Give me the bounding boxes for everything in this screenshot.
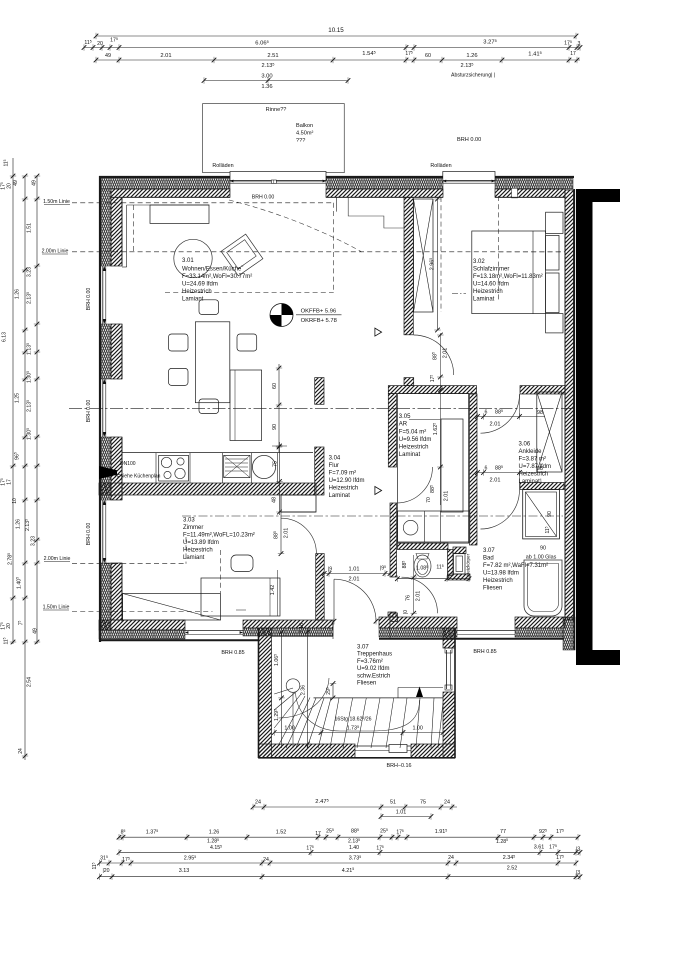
dashed line 2.00m top [72,251,565,253]
interior wall WC north (W7) [397,543,448,550]
dimension chain total 10.15 (top row 1) [96,35,576,37]
stairwell east window [446,650,448,689]
kitchen counter outline [122,452,313,454]
svg-text:AR: AR [399,422,408,428]
svg-text:24: 24 [448,855,454,861]
door Bad west (arc) [402,577,438,613]
bathtub [524,560,562,616]
wall exterior north outer edge [99,176,574,178]
svg-text:10: 10 [12,498,18,504]
window centerline mark bedroom [452,293,466,295]
svg-text:2.01: 2.01 [349,577,360,583]
svg-text:3.61: 3.61 [534,845,545,851]
svg-text:OKFFB+ 5.96: OKFFB+ 5.96 [301,309,337,315]
chair right 1 [237,334,257,351]
window west 1 [102,266,104,324]
svg-text:OKRFB+ 5.78: OKRFB+ 5.78 [301,318,337,324]
svg-text:|20: |20 [102,868,109,874]
wall exterior south-right insulation [379,628,457,637]
wardrobe Ankleide (X) [537,392,562,472]
svg-text:60: 60 [425,53,431,59]
wall exterior west insulation [101,189,111,266]
svg-text:F=33.14m²,WoFl=30.77m²: F=33.14m²,WoFl=30.77m² [182,274,252,280]
svg-text:Heizestrich: Heizestrich [183,548,213,554]
svg-text:3.23: 3.23 [27,267,33,277]
svg-text:Flur: Flur [329,463,339,469]
svg-text:BRH 0.85: BRH 0.85 [221,650,244,656]
svg-text:Heizestrich: Heizestrich [483,578,513,584]
wall exterior south-right outer edge [379,638,564,640]
svg-text:1.51: 1.51 [27,223,33,233]
interior wall radiator stub bottom [448,574,471,580]
stair dim vertical 2.36 [307,628,309,748]
svg-text:F=7.82 m²,WaFl=7.31m²: F=7.82 m²,WaFl=7.31m² [483,563,548,569]
radiator [454,554,466,574]
svg-text:U=9.02 lfdm: U=9.02 lfdm [357,666,390,672]
staircase tread top line [314,697,444,699]
svg-text:24: 24 [18,748,24,754]
svg-text:2.52: 2.52 [507,865,518,871]
svg-text:Heizestrich: Heizestrich [473,289,503,295]
svg-text:6.13: 6.13 [2,332,8,342]
door AR (arc) [397,467,433,503]
svg-text:24: 24 [444,800,450,806]
interior wall hall/bedroom (W1) [404,197,413,334]
chair left 1 [169,334,189,351]
svg-text:115​: 115​ [544,526,551,533]
balcony outline [203,104,345,173]
wall exterior east inner edge [564,197,566,617]
svg-text:1.50m Linie: 1.50m Linie [43,199,70,205]
nightstand top [546,212,563,233]
dashed line 2.00m bottom [72,563,186,565]
svg-text:BRH 0.00: BRH 0.00 [457,137,481,143]
AR shelf [441,419,463,512]
armchair rotated [221,234,263,276]
svg-text:3.02: 3.02 [473,259,485,265]
svg-text:BRH 0.85: BRH 0.85 [473,649,496,655]
chair top [199,300,219,315]
interior wall AR north (W3) [388,386,476,394]
svg-text:BRH 0.00: BRH 0.00 [252,195,275,201]
svg-text:1.40: 1.40 [349,845,359,851]
nightstand bottom [546,314,563,333]
svg-text:Rinne??: Rinne?? [266,107,287,113]
svg-text:2.01: 2.01 [490,422,501,428]
svg-text:U=13.89 lfdm: U=13.89 lfdm [183,540,219,546]
svg-text:1.42: 1.42 [270,585,276,596]
stove with 4 burners [159,455,189,481]
svg-text:115​: 115​ [3,637,10,644]
dimension chain 3.00 / 1.36 [204,80,348,82]
dim line below WC [397,578,469,580]
dashed connector living [133,205,135,252]
svg-text:F=3.76m²: F=3.76m² [357,659,383,665]
WC toilet [414,555,431,577]
svg-text:Fliesen: Fliesen [357,681,376,687]
stair dim vertical 1.06.5/1.29.5 [281,632,283,748]
svg-text:U=14.60 lfdm: U=14.60 lfdm [473,282,509,288]
interior wall radiator stub top [453,547,466,554]
dimension chain bottom row D [100,862,577,864]
svg-text:1.26: 1.26 [14,289,20,299]
pillow 1 [546,235,559,270]
svg-text:49: 49 [105,53,111,59]
svg-text:51: 51 [390,800,396,806]
dashed area boundary horizontal [165,291,334,293]
svg-text:1.00: 1.00 [412,726,423,732]
interior wall Bad west stub south [390,613,397,621]
staircase treads right [400,698,407,748]
svg-text:2.00m Linie: 2.00m Linie [44,556,71,562]
svg-text:2.01: 2.01 [490,478,501,484]
svg-text:U=12.90 lfdm: U=12.90 lfdm [329,478,365,484]
left dimension line inner [36,176,38,644]
svg-text:Wohnen/Essen/Küche˜: Wohnen/Essen/Küche˜ [182,266,244,272]
svg-text:98: 98 [537,466,543,472]
interior wall Ankleide west (W5) [470,394,478,545]
wall exterior west hatch [111,197,122,266]
svg-text:U=7.87 lfdm: U=7.87 lfdm [519,464,552,470]
svg-text:3: 3 [578,41,581,47]
living room inner lining [127,204,210,206]
staircase winder arc [279,678,330,718]
survey point symbol [270,304,293,327]
svg-text:Balkon: Balkon [296,123,313,129]
svg-text:115​: 115​ [91,862,98,869]
window west 3 [102,500,104,563]
svg-text:75: 75 [420,800,426,806]
svg-text:Zimmer: Zimmer [183,525,203,531]
dashed line bedroom boundary [440,197,442,312]
corridor door dimension 19/1.01/19.5/2.01 [324,573,390,575]
svg-text:2.00m Linie: 2.00m Linie [42,248,69,254]
svg-text:BRH−0.16: BRH−0.16 [386,763,411,769]
stairwell west wall [259,628,272,758]
round table [174,239,212,277]
bedroom dim 2.96.5 [437,197,439,330]
svg-text:16Stg 18.625​/26: 16Stg 18.625​/26 [334,716,371,723]
bed Zimmer with diagonal [123,594,221,621]
window west 2 [102,379,104,437]
svg-text:Fliesen: Fliesen [483,586,502,592]
interior wall Bad west (W9b) [390,503,397,577]
svg-text:F=3.87 m²: F=3.87 m² [519,457,547,463]
svg-text:20: 20 [6,623,12,629]
door bedroom (arc) [414,335,454,375]
left dimension line outer [12,158,14,644]
svg-text:98: 98 [537,410,543,416]
svg-text:70: 70 [426,497,432,503]
svg-text:90: 90 [547,511,553,517]
dishwasher [224,455,250,477]
svg-text:1.01: 1.01 [396,810,407,816]
svg-text:???: ??? [296,138,305,144]
kitchen niche outline [281,495,316,512]
svg-text:Lamiant: Lamiant [182,296,204,302]
window north bedroom (Rolladen box) [443,172,495,181]
svg-text:17: 17 [7,479,13,485]
wall exterior north insulation [101,179,230,190]
svg-text:Schlafzimmer: Schlafzimmer [473,267,509,273]
svg-text:Heizestrich: Heizestrich [329,486,359,492]
staircase treads middle [330,698,339,748]
svg-text:3.03: 3.03 [183,518,195,524]
svg-text:|0: |0 [403,610,409,614]
svg-text:BRH 0.00: BRH 0.00 [86,288,92,311]
interior wall Zimmer east (W12) [316,554,325,620]
door Zimmer (arc) [281,518,316,553]
svg-text:1.00: 1.00 [284,726,295,732]
wall exterior south-left outer edge [99,639,259,641]
svg-text:1.26: 1.26 [466,53,477,59]
svg-text:Laminat: Laminat [473,297,495,303]
svg-text:1.36: 1.36 [261,84,272,90]
svg-text:Heizkörper: Heizkörper [466,553,471,576]
svg-text:20: 20 [7,183,13,189]
stair dim 29.5 [332,684,334,698]
svg-text:3.01: 3.01 [182,258,194,264]
window north living (Rolladen box) [230,172,326,181]
dimension chain bottom row B [119,836,578,838]
round sink [252,455,275,478]
svg-text:2.54: 2.54 [27,677,33,687]
svg-text:2.01: 2.01 [284,528,290,539]
svg-text:90: 90 [540,546,546,552]
wall exterior west inner edge [121,197,123,266]
stair dim 1.00/1.73.5/1.00 [274,732,443,734]
interior wall stub below bedroom door (W2) [404,378,414,386]
wall exterior west outer edge [99,176,101,642]
svg-text:1.25: 1.25 [14,393,20,403]
chair bottom [199,399,219,414]
svg-text:115​: 115​ [3,159,10,166]
svg-text:1.01: 1.01 [349,567,360,573]
wall exterior south-right hatch [379,617,457,628]
dimension chain 1.01 [381,816,431,818]
svg-text:49: 49 [33,628,39,634]
staircase walk line [296,693,420,731]
svg-text:h=siehe Küchenplan: h=siehe Küchenplan [115,474,161,480]
interior wall bedroom south (W4) [520,386,565,394]
svg-text:3.07: 3.07 [483,548,495,554]
svg-text:1.26: 1.26 [16,519,22,529]
svg-text:Heizestrich: Heizestrich [399,445,429,451]
stairwell south wall [259,744,356,758]
island dimension 60/90 [278,364,280,452]
svg-text:175​: 175​ [430,375,437,383]
svg-text:90: 90 [272,424,278,430]
desk Zimmer [201,578,280,616]
svg-text:6: 6 [485,410,488,416]
svg-text:Treppenhaus: Treppenhaus [357,652,392,658]
dashed line 2.00m mid [182,515,563,517]
interior wall kitchen/Zimmer (W13) [99,483,316,495]
chair left 2 [169,368,189,385]
dim Ankleide door lower [478,472,546,474]
svg-text:Laminat: Laminat [399,452,421,458]
sideboard top wall [150,205,209,223]
svg-text:24: 24 [255,800,261,806]
svg-text:Rolläden: Rolläden [212,163,233,169]
staircase up arrow [416,687,423,698]
niche line [281,511,316,513]
svg-text:3.23: 3.23 [31,536,37,546]
washbasin counter [397,511,469,542]
entrance lining step [335,197,337,211]
section marker triangle 2 [375,487,382,495]
svg-text:17: 17 [315,831,321,837]
svg-text:Bad: Bad [483,556,494,562]
svg-text:2.01: 2.01 [416,591,422,602]
interior wall living/hall upper (W14a) [315,378,324,405]
svg-text:1.52: 1.52 [276,830,287,836]
svg-text:|3: |3 [576,870,580,876]
dining table [195,322,229,403]
staircase newel circle [286,679,300,693]
dashed horizontal bedroom 2m [498,251,565,253]
svg-text:BRH 0.00: BRH 0.00 [86,400,92,423]
svg-text:Ankleide: Ankleide [519,449,543,455]
svg-text:1.26: 1.26 [209,830,220,836]
dashed connector bedroom [497,196,499,300]
svg-text:3.04: 3.04 [329,456,341,462]
section line A-A [69,407,575,409]
svg-text:48: 48 [272,497,278,503]
wall exterior east outer edge [573,189,575,650]
svg-text:2.51: 2.51 [267,53,278,59]
wall exterior north hatch [111,189,230,197]
svg-text:Heizestrich: Heizestrich [182,289,212,295]
svg-text:F=5.04 m²: F=5.04 m² [399,429,427,435]
chair Zimmer [231,555,253,572]
north wall gap detail [512,188,518,198]
svg-text:F=7.09 m²: F=7.09 m² [329,471,357,477]
svg-text:|3: |3 [576,847,580,853]
dimension chain row 2 (11.5/20/17.5/6.06.5/3.27.5/17.5/3) [84,47,580,49]
svg-text:3.06: 3.06 [519,442,531,448]
section marker triangle 1 [375,328,382,336]
balcony door swing (dashed arc) [229,200,362,252]
wall exterior north inner edge [122,196,230,198]
svg-text:49: 49 [13,180,19,186]
interior wall AR west upper (W9a) [388,394,396,467]
dimension chain bottom row E [100,876,581,878]
svg-text:Lamiant: Lamiant [183,555,205,561]
svg-text:2.01: 2.01 [160,53,171,59]
svg-text:DN100: DN100 [120,461,136,467]
svg-text:60: 60 [272,383,278,389]
interior wall living/hall lower (W14b) [315,447,324,495]
window south Bad [457,630,515,632]
svg-text:2.01: 2.01 [442,348,448,359]
svg-text:4.50m²: 4.50m² [296,131,314,137]
dim Ankleide door upper [478,416,546,418]
svg-text:6: 6 [485,466,488,472]
wall exterior south-left hatch [99,620,185,630]
svg-text:17: 17 [570,51,576,57]
stairwell north inner edge [272,635,334,637]
left dimension line middle [24,176,26,760]
svg-text:F=13.18m²,WoFl=11.83m²: F=13.18m²,WoFl=11.83m² [473,274,543,280]
wardrobe hall (X) [414,199,434,312]
svg-text:Rolläden: Rolläden [430,163,451,169]
svg-text:3.13: 3.13 [179,868,190,874]
svg-text:schw.Estrich: schw.Estrich [357,673,390,679]
bed [472,231,546,314]
svg-text:2.18: 2.18 [299,623,305,633]
kitchen dimension 75/48 [279,442,281,515]
svg-text:2.36: 2.36 [300,685,306,695]
balcony door mullion [271,180,276,183]
svg-text:1.50m Linie: 1.50m Linie [43,605,70,611]
window south Zimmer [185,630,243,632]
staircase treads left fan [274,688,293,694]
staircase landing edge [397,688,399,698]
dimension chain stair (24/2.47.5/51/75/24) [253,806,457,808]
svg-text:Laminat¹: Laminat¹ [519,479,542,485]
svg-text:77: 77 [500,829,506,835]
interior wall Ankleide/Bad (W6) [520,483,564,490]
svg-text:75: 75 [273,461,279,467]
wall exterior east hatch [565,190,574,620]
svg-text:20: 20 [97,41,103,47]
dashed area boundary vertical [333,203,335,293]
wall exterior south-left insulation [99,630,185,639]
svg-text:|9: |9 [328,567,332,573]
dashed connector Zimmer desk [220,550,222,593]
existing building wall (black) [576,189,620,202]
dashed line 1.50m top [72,202,334,204]
svg-text:24: 24 [263,857,269,863]
shower [523,490,560,539]
bedroom door dims [439,333,441,505]
svg-text:10.15: 10.15 [328,27,344,34]
svg-text:U=13.98 lfdm: U=13.98 lfdm [483,571,519,577]
svg-text:U=9.56 lfdm: U=9.56 lfdm [399,437,432,443]
corner block south-east [563,617,575,650]
svg-text:U=24.69 lfdm: U=24.69 lfdm [182,281,218,287]
stairwell south window [355,745,411,747]
svg-text:F=11.49m²,WoFL=10.23m²: F=11.49m²,WoFL=10.23m² [183,533,255,539]
svg-text:BRH 0.00: BRH 0.00 [86,523,92,546]
svg-text:2.01: 2.01 [444,491,450,502]
svg-text:Absturzsicherung| |: Absturzsicherung| | [451,73,495,79]
dimension chain row 3 (49/2.01/2.51/1.54.5/17/60/1.26/1.41.5/17) [96,59,580,61]
stair door threshold [332,621,334,639]
svg-text:3.07: 3.07 [357,645,369,651]
kitchen island [230,370,262,441]
dimension chain bottom row C [119,851,580,853]
door stair entry (arc) [334,579,376,621]
svg-text:75​: 75​ [18,621,25,626]
svg-text:3.05: 3.05 [399,414,411,420]
dashed line 1.50m bottom [72,611,213,613]
downpipe DN100 [99,466,117,479]
door Bad upper (arc) [481,490,520,529]
svg-text:3.00: 3.00 [261,74,272,80]
AR inner outline [398,394,469,543]
door Ankleide upper (arc) [481,394,520,433]
stairwell east wall [443,628,455,648]
svg-text:76: 76 [406,595,412,601]
svg-text:Laminat: Laminat [329,493,351,499]
svg-text:49: 49 [31,180,37,186]
interior wall WC east partition (W8) [448,550,454,576]
pillow 2 [546,273,559,313]
